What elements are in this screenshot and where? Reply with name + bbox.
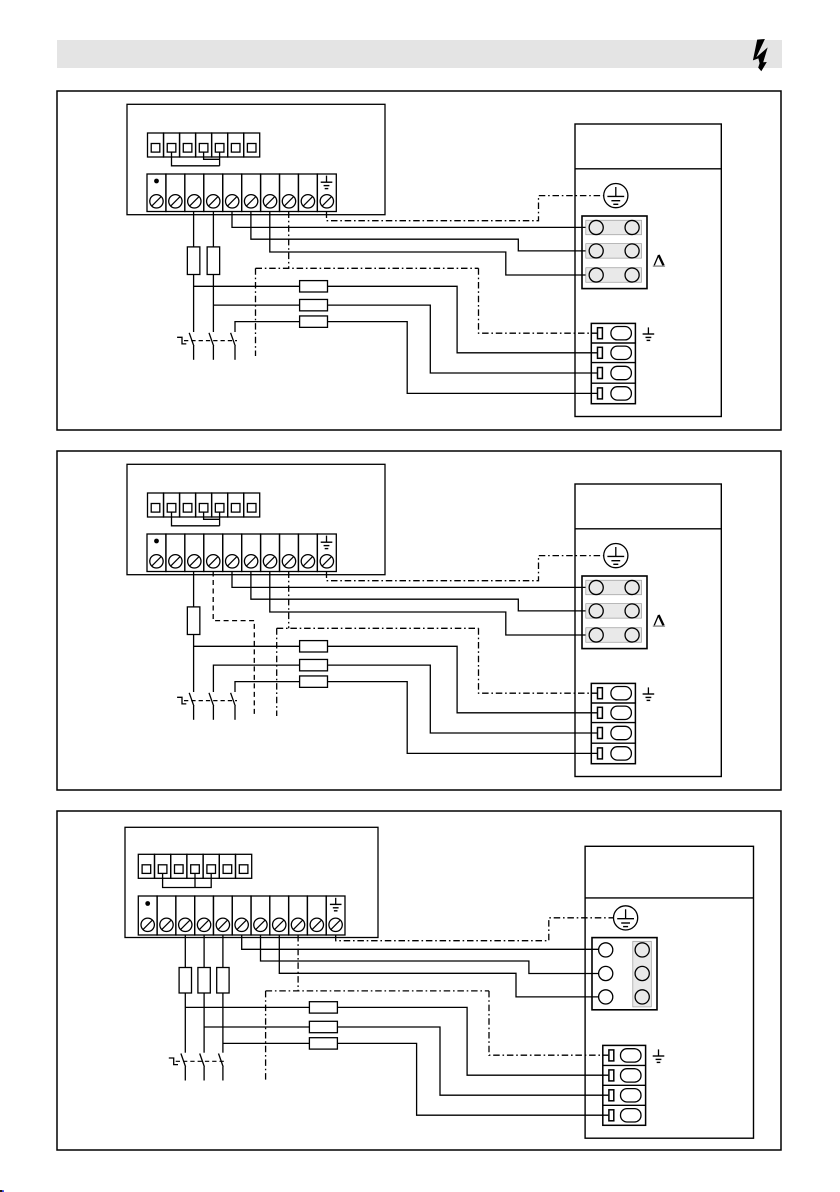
panel 2 switch actuator bracket [177,697,186,704]
panel 2 wire L1 fuse to switch [193,635,195,693]
panel 2 connector strip X2 cells [148,493,260,517]
panel 1 motor terminal board (delta links) [582,216,647,289]
panel 1 jumper link contacts 2-5 [172,152,220,166]
panel 3 choke L5 [309,1021,337,1032]
panel 1 choke L6 [300,316,328,327]
panel 2 motor enclosure [575,484,721,777]
panel 3 choke L4 [309,1002,337,1013]
panel 3 wire L3 fuse to switch [222,993,224,1053]
panel 1 border [57,91,781,430]
panel 2 wire switch pole2 to choke L5 [213,665,299,692]
panel 1 earth wire from terminal 8 (dash-dot) [256,212,598,357]
panel 2 jumper link contacts 4-5 [204,512,220,526]
panel 1 wire L2 fuse to switch [212,275,214,333]
panel 3 terminal 11 earth mark [330,898,342,911]
panel 2 wire switch pole3 riser to choke L6 [235,682,300,692]
panel 1 choke L5 [300,299,328,310]
panel 3 wire terminal8 to motor W1 [279,935,598,997]
panel 3 wire L3 terminal5 down [222,935,224,968]
panel 1 wire choke L6 to plug terminal 4 [328,322,598,394]
panel 2 switch pole 2 [209,693,214,720]
panel 3 wire terminal6 to motor U1 [242,935,599,949]
panel 1 terminal 1 polarity dot [154,179,159,184]
panel 1 wire switch pole3 riser to choke L6 [235,322,300,332]
panel 1 wire link fuses to choke L4 [194,285,300,287]
panel 3 switch linkage dashed [176,1060,225,1062]
panel 2 choke L4 [300,641,328,652]
panel 1 wire L1 fuse to switch [193,275,195,333]
panel 3 jumper link contacts 2-4-5 [163,873,212,887]
panel 2 plug earth mark [643,687,655,700]
panel 1 earth wire terminal10 to motor earth (dash-dot) [327,196,604,221]
panel 1 wire terminal7 to motor W1 [270,212,589,276]
panel 2 switch pole 1 [189,693,194,720]
panel 3 switch pole 3 [219,1054,224,1081]
panel 2 terminal 10 earth mark [321,536,333,549]
panel 1 wire terminal6 to motor V1 [251,212,589,251]
panel 2 wire fuse to choke L4 [194,645,300,647]
panel 2 wire terminal5 to motor U1 [232,572,589,588]
panel 1 plug earth mark [643,327,655,340]
panel 3 switch pole 1 [181,1054,186,1081]
panel 3 wire L2 fuse to switch [203,993,205,1053]
panel 2 border [57,451,781,790]
panel 3 choke L6 [309,1038,337,1049]
panel 3 control board outline [125,827,378,937]
panel 3 motor terminal board (star link) [592,938,657,1010]
panel 2 dashed neutral wire terminal4 [213,572,254,717]
panel 2 switch pole 3 [231,693,236,720]
panel 1 switch pole 3 [231,333,236,360]
panel 2 switch linkage dashed [184,700,237,702]
panel 2 control board outline [127,464,385,574]
panel 1 connector strip X2 contacts [151,144,256,153]
panel 1 switch actuator bracket [177,337,186,344]
panel 3 terminal 1 polarity dot [145,901,150,906]
panel 1 motor enclosure [575,124,721,417]
panel 3 plug earth mark [653,1049,665,1062]
panel 2 choke L5 [300,659,328,670]
panel 1 wire L2 terminal4 down [212,212,214,247]
panel 3 border [57,811,781,1150]
panel 3 fuse F3 [217,968,229,994]
panel 3 motor earth symbol [614,906,638,930]
panel 1 supply plug terminal block [591,323,635,403]
panel 3 switch actuator bracket [169,1058,178,1065]
panel 3 wire choke L4 to plug terminal 2 [337,1007,608,1075]
panel 2 motor enclosure divider [575,528,721,530]
panel 2 supply plug terminal block [591,683,635,763]
panel 1 wire choke L4 to plug terminal 2 [328,286,598,353]
panel 3 wire L2 terminal4 down [203,935,205,968]
panel 3 wire L1 terminal3 down [184,935,186,968]
panel 1 switch pole 2 [209,333,214,360]
panel 3 wire fuse3 to choke L6 [223,1042,310,1044]
panel 2 wire choke L6 to plug terminal 4 [328,682,598,754]
panel 3 wire choke L5 to plug terminal 3 [337,1027,608,1095]
panel 1 wire terminal5 to motor U1 [232,212,589,228]
panel 1 jumper link contacts 4-5 [204,152,220,166]
panel 3 supply plug terminal block [603,1045,646,1125]
panel 3 switch pole 2 [200,1054,205,1081]
panel 1 terminal 10 earth mark [321,176,333,189]
panel 1 motor enclosure divider [575,168,721,170]
panel 3 wire fuse2 to choke L5 [204,1026,309,1028]
panel 3 connector strip X2 cells [138,854,251,878]
high-voltage lightning bolt icon [753,39,768,71]
panel 2 fuse F1 [187,607,200,635]
panel 2 wire terminal6 to motor V1 [251,572,589,611]
panel 2 connector strip X2 contacts [151,504,256,513]
panel 1 connector strip X2 cells [148,133,260,157]
panel 1 switch linkage dashed [184,340,237,342]
panel 1 choke L4 [300,281,328,292]
panel 2 wire terminal7 to motor W1 [270,572,589,636]
panel 2 motor earth symbol [604,544,628,568]
panel 1 wire choke L5 to plug terminal 3 [328,305,598,373]
panel 3 wire terminal7 to motor V1 [261,935,599,974]
panel 3 fuse F1 [179,968,191,994]
panel 3 connector strip X2 contacts [142,865,248,874]
panel 1 fuse F1 [187,247,200,275]
panel 1 control board outline [127,104,385,214]
panel 1 motor earth symbol [604,184,628,208]
panel 1 wire fuse2 to choke L5 [213,304,299,306]
panel 3 wire L1 fuse to switch [184,993,186,1053]
panel 3 motor enclosure divider [585,897,753,899]
panel 3 terminal block X1 (11 screws) [138,896,345,935]
panel 1 delta symbol [653,255,665,266]
page corner artifact [0,1190,4,1192]
panel 1 terminal block X1 (10 screws) [147,174,336,212]
panel 2 motor terminal board (delta links) [582,576,647,649]
panel 2 wire choke L5 to plug terminal 3 [328,665,598,733]
panel 1 switch pole 1 [189,333,194,360]
panel 2 earth wire from terminal 8 (dash-dot) [277,572,598,717]
panel 3 wire choke L6 to plug terminal 4 [337,1043,608,1115]
panel 2 wire L1 terminal3 down [193,572,195,607]
panel 3 motor enclosure [585,846,753,1138]
panel 1 wire L1 terminal3 down [193,212,195,247]
panel 3 wire link fuses to choke L4 [185,1006,309,1008]
panel 2 terminal 1 polarity dot [154,539,159,544]
panel 2 choke L6 [300,676,328,687]
panel 2 terminal block X1 (10 screws) [147,534,336,572]
panel 1 fuse F2 [207,247,220,275]
panel 3 earth wire from terminal 9 (dash-dot) [266,935,609,1082]
panel 2 wire choke L4 to plug terminal 2 [328,646,598,713]
panel 3 fuse F2 [198,968,210,994]
panel 2 delta symbol [653,615,665,626]
panel 3 earth wire terminal11 to motor earth (dash-dot) [336,918,614,941]
panel 2 earth wire terminal10 to motor earth (dash-dot) [327,556,604,581]
panel 2 jumper link contacts 2-5 [172,512,220,526]
header bar [57,40,782,68]
